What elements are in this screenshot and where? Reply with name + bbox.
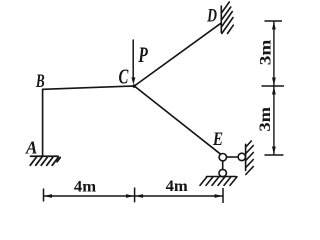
svg-text:P: P	[138, 43, 148, 67]
svg-text:B: B	[35, 70, 45, 92]
svg-text:4m: 4m	[166, 177, 189, 195]
svg-text:3m: 3m	[256, 106, 274, 131]
svg-text:E: E	[212, 128, 223, 149]
svg-text:C: C	[119, 65, 129, 88]
svg-text:4m: 4m	[74, 178, 97, 196]
svg-text:3m: 3m	[256, 39, 274, 65]
svg-text:D: D	[206, 4, 217, 26]
svg-text:A: A	[25, 137, 37, 157]
